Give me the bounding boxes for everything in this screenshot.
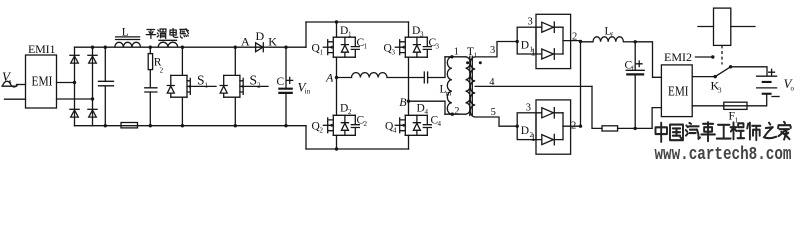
svg-text:C: C xyxy=(277,76,285,88)
wire bottom run to primary pin 2 xyxy=(445,113,466,115)
node A xyxy=(335,76,338,79)
svg-text:2: 2 xyxy=(348,108,352,116)
watermark Chinese text xyxy=(656,122,791,142)
junction left column mid xyxy=(73,81,76,84)
bottom rail left section xyxy=(75,125,307,127)
svg-text:2: 2 xyxy=(364,120,368,128)
transistor Q3 cell xyxy=(384,22,440,57)
svg-text:1: 1 xyxy=(531,133,536,144)
svg-text:2: 2 xyxy=(454,106,459,117)
transformer T1 primary winding xyxy=(466,57,471,114)
label smoothing inductor (Chinese) xyxy=(146,29,188,39)
svg-text:1: 1 xyxy=(320,49,324,57)
svg-text:L: L xyxy=(122,27,129,39)
switch cell S2 xyxy=(220,46,268,128)
wire source bottom to EMI1 xyxy=(5,98,26,100)
svg-text:f: f xyxy=(611,32,614,40)
svg-text:2: 2 xyxy=(572,32,577,43)
svg-text:o: o xyxy=(791,85,795,93)
magnetizing inductor Lm xyxy=(440,57,452,114)
diode bridge top-left xyxy=(70,55,79,63)
svg-text:D: D xyxy=(521,125,529,137)
transistor Q2 cell xyxy=(312,78,368,151)
relay coil K3 box xyxy=(698,8,755,45)
junction R2 top xyxy=(149,46,152,49)
svg-text:in: in xyxy=(305,88,311,96)
svg-text:2: 2 xyxy=(257,82,261,90)
wire Cb to node 1 riser xyxy=(428,57,445,78)
wire Lr to series capacitor xyxy=(387,77,424,79)
bridge top rail xyxy=(306,21,409,23)
svg-text:D: D xyxy=(256,29,265,43)
wire EMI2 to fuse xyxy=(692,105,724,107)
junction Cf top xyxy=(634,40,637,43)
label EMI2 with leader xyxy=(664,50,715,64)
wire to EMI2 top input xyxy=(635,42,661,78)
wire EMI1 to bridge right column xyxy=(57,98,93,100)
svg-text:EMI2: EMI2 xyxy=(664,50,692,64)
rectifier module D1 xyxy=(516,14,583,68)
junction right column top rail xyxy=(91,46,94,49)
wire source top to EMI1 xyxy=(17,84,26,86)
svg-text:EMI1: EMI1 xyxy=(28,42,56,56)
svg-text:A: A xyxy=(325,70,334,84)
svg-text:EMI: EMI xyxy=(668,85,689,100)
svg-text:B: B xyxy=(399,95,407,109)
input rectifier left column xyxy=(74,47,76,126)
switch cell S1 xyxy=(167,46,216,128)
svg-text:5: 5 xyxy=(491,107,496,118)
diode bridge bottom-left xyxy=(70,109,79,117)
svg-text:4: 4 xyxy=(438,120,442,128)
svg-text:3: 3 xyxy=(490,45,495,56)
capacitor C (Vin bus cap) xyxy=(277,46,311,128)
svg-text:1: 1 xyxy=(364,43,368,51)
input rectifier right column xyxy=(92,47,94,126)
polarity dot primary xyxy=(466,61,469,64)
wire top run to primary pin 1 xyxy=(445,56,466,58)
svg-text:www.cartech8.com: www.cartech8.com xyxy=(655,143,792,164)
svg-text:3: 3 xyxy=(718,87,722,95)
wire to EMI2 bottom input xyxy=(652,108,661,129)
transistor Q4 cell xyxy=(385,103,442,150)
watermark url xyxy=(655,143,792,164)
wire secondary pin 5 to rectifier D2 xyxy=(475,117,517,126)
wire Lf to junction xyxy=(623,41,635,43)
dashed control link xyxy=(721,45,723,64)
wire dropper to bridge bottom xyxy=(305,126,307,149)
resistor R2 branch xyxy=(145,47,164,127)
wire riser to bridge top xyxy=(305,22,307,47)
svg-text:1: 1 xyxy=(205,82,209,90)
filter inductor Lf xyxy=(593,26,623,42)
diode bridge top-right xyxy=(88,55,97,63)
wire pin4 dropper xyxy=(592,86,602,128)
wire Q3 source to node B leg xyxy=(408,57,410,115)
svg-text:3: 3 xyxy=(526,103,531,114)
wire secondary pin 3 to rectifier D1 xyxy=(475,42,517,57)
rectifier module D2 xyxy=(516,100,583,154)
resistor on bottom rail xyxy=(121,123,138,128)
svg-text:D: D xyxy=(521,40,529,52)
output bottom rail xyxy=(618,127,653,129)
svg-text:2: 2 xyxy=(320,127,324,135)
transistor Q1 cell xyxy=(312,20,368,57)
wire joining rectifier outputs xyxy=(581,42,594,126)
node B xyxy=(407,100,410,103)
junction Lm top / pin 1 xyxy=(450,55,453,58)
switch K3 xyxy=(692,65,732,94)
svg-text:EMI: EMI xyxy=(32,75,53,90)
svg-text:3: 3 xyxy=(392,49,396,57)
AC source Vs xyxy=(2,69,18,87)
svg-text:1: 1 xyxy=(454,46,459,57)
svg-text:m: m xyxy=(446,90,452,98)
bridge bottom rail xyxy=(306,148,409,150)
battery Vo xyxy=(747,69,795,106)
inductor L coil 2 (smoothing) xyxy=(158,40,178,47)
svg-text:1: 1 xyxy=(474,52,478,60)
diode bridge bottom-right xyxy=(88,109,97,117)
wire Q1 source to node A xyxy=(336,57,338,77)
svg-text:3: 3 xyxy=(420,31,424,39)
svg-text:1: 1 xyxy=(348,31,352,39)
EMI2 filter box xyxy=(661,65,692,117)
svg-text:A: A xyxy=(241,34,250,48)
inductor L coil 1 xyxy=(115,27,141,48)
wire node B run xyxy=(409,101,446,114)
svg-text:S: S xyxy=(250,72,258,87)
output shunt resistor xyxy=(602,126,618,131)
svg-text:2: 2 xyxy=(160,67,164,75)
filter capacitor Cf xyxy=(625,42,645,129)
series capacitor Cb xyxy=(424,72,427,83)
svg-text:4: 4 xyxy=(425,108,429,116)
transformer T1 core xyxy=(470,56,473,115)
wire switch to battery xyxy=(731,67,767,76)
EMI1 filter box xyxy=(26,55,57,108)
junction Cf bottom xyxy=(634,127,637,130)
bus capacitor xyxy=(99,46,114,128)
wire secondary pin 4 (center tap) xyxy=(475,85,592,87)
svg-text:S: S xyxy=(197,72,205,87)
svg-text:4: 4 xyxy=(393,127,397,135)
wire EMI1 to bridge left column xyxy=(57,82,75,84)
top rail left section xyxy=(75,46,307,48)
resonant inductor Lr xyxy=(352,73,388,78)
svg-text:4: 4 xyxy=(489,77,495,88)
junction Lm bottom / pin 2 xyxy=(451,113,454,116)
diode D on rail xyxy=(241,29,277,52)
svg-text:2: 2 xyxy=(571,121,576,132)
polarity dot secondary xyxy=(479,61,482,64)
wire node A to resonant inductor xyxy=(337,77,352,79)
svg-text:K: K xyxy=(268,34,277,48)
svg-text:3: 3 xyxy=(528,17,533,28)
fuse F1 xyxy=(724,102,747,124)
junction right column mid xyxy=(91,97,94,100)
svg-text:f: f xyxy=(632,65,635,73)
transformer T1 secondary winding xyxy=(470,57,475,117)
svg-text:3: 3 xyxy=(436,43,440,51)
svg-text:1: 1 xyxy=(531,48,536,59)
